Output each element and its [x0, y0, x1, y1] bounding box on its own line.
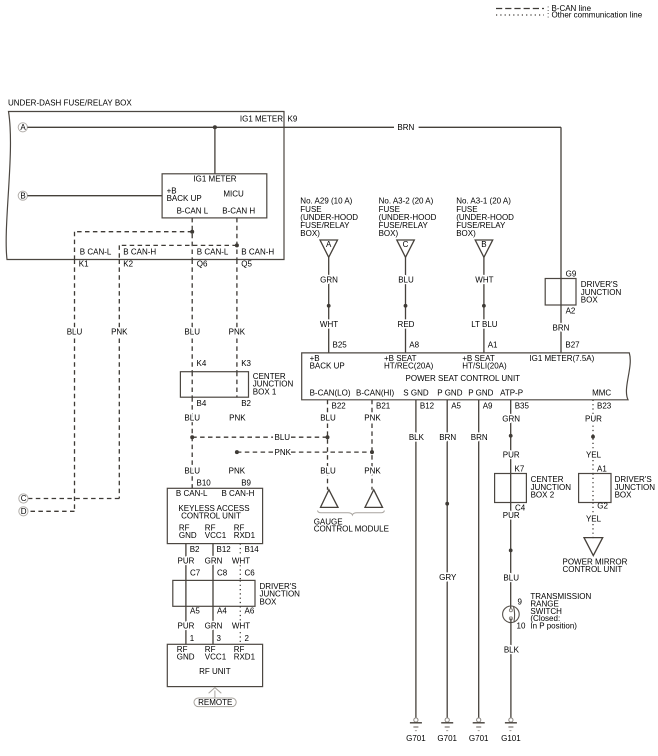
- transmission range switch label: [530, 592, 591, 631]
- svg-text:B CAN-L: B CAN-L: [176, 489, 208, 498]
- svg-text:PUR: PUR: [503, 511, 520, 520]
- svg-text:A8: A8: [409, 341, 419, 350]
- svg-text:B: B: [481, 240, 486, 249]
- wire through center junction box 1 (right): [236, 372, 238, 398]
- svg-text:GRN: GRN: [205, 557, 223, 566]
- wire fuse A to B25 (GRN/WHT): [328, 257, 330, 353]
- splice on B35 wire: [509, 434, 513, 438]
- REMOTE capsule: [194, 698, 236, 707]
- remote signal arrow: [209, 688, 222, 698]
- node B connector circle: [18, 191, 27, 200]
- svg-text:B21: B21: [376, 401, 391, 410]
- svg-text:B2: B2: [241, 399, 251, 408]
- node C connector circle: [19, 494, 28, 503]
- wire BRN vertical to driver's junction box G9: [560, 127, 562, 278]
- fuse A text No. A29 (10 A): [300, 197, 358, 238]
- svg-text:RF UNIT: RF UNIT: [199, 667, 231, 676]
- splice on fuse B wire: [482, 304, 486, 308]
- svg-text:PNK: PNK: [229, 327, 246, 336]
- svg-text:K3: K3: [241, 359, 251, 368]
- svg-text:POWER SEAT CONTROL UNIT: POWER SEAT CONTROL UNIT: [406, 374, 521, 383]
- svg-text:WHT: WHT: [320, 320, 338, 329]
- svg-text:B4: B4: [197, 399, 207, 408]
- power mirror control unit triangle: [584, 538, 603, 556]
- gauge control module label: [314, 517, 389, 533]
- svg-text:B: B: [20, 191, 25, 200]
- svg-text:BRN: BRN: [553, 324, 570, 333]
- svg-text:BRN: BRN: [397, 123, 414, 132]
- svg-text:MMC: MMC: [592, 389, 611, 398]
- svg-text:A1: A1: [597, 465, 607, 474]
- svg-text:P GND: P GND: [437, 389, 462, 398]
- ground G701 (B12): [406, 718, 426, 743]
- svg-text:B12: B12: [217, 545, 232, 554]
- svg-text:B CAN-H: B CAN-H: [241, 247, 274, 256]
- power seat control unit box: [302, 353, 631, 400]
- svg-text:D: D: [21, 507, 27, 516]
- svg-text:YEL: YEL: [586, 515, 602, 524]
- svg-text:GRN: GRN: [320, 275, 338, 284]
- svg-text:BLU: BLU: [67, 327, 83, 336]
- svg-text:G2: G2: [597, 501, 608, 510]
- splice on C4 wire: [509, 549, 513, 553]
- wire B-CAN H bus to K2: [119, 245, 237, 259]
- wire WHT keyless B14 to C6 (dotted): [239, 544, 241, 581]
- svg-text:PUR: PUR: [585, 415, 602, 424]
- driver's junction box (lower) outline: [579, 474, 611, 503]
- svg-text:IG1 METER: IG1 METER: [240, 115, 283, 124]
- svg-text:B-CAN(HI): B-CAN(HI): [356, 389, 395, 398]
- svg-text:C6: C6: [245, 569, 256, 578]
- wire B35 GRN to center junction box 2: [510, 400, 512, 474]
- svg-text:Q6: Q6: [197, 259, 208, 268]
- svg-text:BACK UP: BACK UP: [310, 361, 345, 370]
- svg-text:BOX 2: BOX 2: [531, 491, 555, 500]
- svg-text:B12: B12: [420, 401, 435, 410]
- center junction box 1 outline: [180, 372, 248, 398]
- svg-text:A: A: [326, 240, 332, 249]
- svg-text:RXD1: RXD1: [234, 531, 256, 540]
- wire B21 PNK dashed down to gauge control module: [371, 400, 373, 490]
- wire B-CAN L dashed down from IG1 METER: [191, 218, 193, 260]
- svg-text:BRN: BRN: [439, 433, 456, 442]
- wire K2 PNK dashed down to C: [28, 260, 119, 499]
- junction PNK bus at keyless wire: [235, 450, 239, 454]
- svg-text:B CAN-L: B CAN-L: [80, 247, 112, 256]
- wire B22 BLU dashed down to gauge control module: [327, 400, 329, 490]
- svg-text:PNK: PNK: [229, 413, 246, 422]
- svg-text:B9: B9: [241, 478, 251, 487]
- wire B4 BLU dashed down to keyless access control unit: [191, 397, 193, 488]
- wire through CJB2: [510, 474, 512, 503]
- svg-text:BOX 1: BOX 1: [253, 387, 277, 396]
- ground G701 (A5): [437, 718, 457, 743]
- svg-text:B-CAN(LO): B-CAN(LO): [310, 389, 351, 398]
- svg-text:G701: G701: [469, 734, 489, 743]
- svg-text:BOX: BOX: [581, 296, 599, 305]
- legend B-CAN line sample: [496, 4, 592, 13]
- driver's junction box (lower) label: [615, 475, 656, 499]
- driver's junction box (BRN) outline: [545, 279, 576, 306]
- wire PUR keyless B2 to driver's junction box C7: [185, 544, 187, 581]
- wire MMC PUR dotted to driver's junction box A1: [592, 400, 594, 474]
- svg-text:WHT: WHT: [232, 557, 250, 566]
- wire GRN keyless B12 to C8: [212, 544, 214, 581]
- svg-text:IG1 METER(7.5A): IG1 METER(7.5A): [529, 354, 594, 363]
- svg-text:9: 9: [518, 598, 523, 607]
- svg-text:WHT: WHT: [232, 622, 250, 631]
- svg-text:C: C: [21, 494, 27, 503]
- wire A to IG1 METER K9 (BRN): [27, 126, 561, 128]
- wire through center junction box 1 (left): [191, 372, 193, 398]
- BLU bus dashed to gauge control module wire: [192, 436, 327, 438]
- wire PUR DJB A5 to RF unit 1: [185, 606, 187, 644]
- svg-text:BOX): BOX): [456, 229, 476, 238]
- svg-text:C7: C7: [190, 569, 201, 578]
- power mirror control unit label: [563, 558, 628, 574]
- svg-text:BLU: BLU: [503, 574, 519, 583]
- splice on MMC wire: [591, 435, 595, 439]
- wire C4 PUR/BLU to transmission range switch: [510, 503, 512, 611]
- legend Other communication line sample: [496, 11, 643, 20]
- svg-text:P GND: P GND: [468, 389, 493, 398]
- wire Q5 PNK dashed down to center junction box 1: [236, 260, 238, 372]
- wire B-CAN L bus to K1: [75, 232, 193, 260]
- svg-text:S GND: S GND: [403, 389, 429, 398]
- svg-text:: Other communication line: : Other communication line: [547, 11, 643, 20]
- svg-text:BACK UP: BACK UP: [167, 194, 202, 203]
- svg-text:IG1 METER: IG1 METER: [193, 174, 236, 183]
- wire B-CAN H dashed down from IG1 METER: [236, 218, 238, 260]
- junction B-CAN L bus: [190, 230, 194, 234]
- svg-text:A5: A5: [190, 607, 200, 616]
- junction BLU bus end: [326, 435, 330, 439]
- wire 10 BLK to ground G101: [510, 618, 512, 717]
- svg-text:B22: B22: [332, 401, 347, 410]
- wire through DJB GRN: [212, 580, 214, 606]
- svg-text:ATP-P: ATP-P: [500, 389, 523, 398]
- wire through DJB WHT dotted: [239, 580, 241, 606]
- svg-text:3: 3: [217, 634, 222, 643]
- driver's junction box (RF) outline: [173, 580, 255, 606]
- svg-text:In P position): In P position): [530, 622, 577, 631]
- svg-text:B23: B23: [597, 401, 612, 410]
- svg-text:PUR: PUR: [178, 622, 195, 631]
- junction B-CAN H bus: [235, 243, 239, 247]
- svg-text:BLU: BLU: [320, 413, 336, 422]
- PNK bus dashed to gauge control module wire: [237, 451, 372, 453]
- svg-text:CONTROL UNIT: CONTROL UNIT: [181, 512, 241, 521]
- pin +B BACK UP: [167, 187, 202, 203]
- svg-text:B35: B35: [515, 401, 530, 410]
- svg-text:2: 2: [245, 634, 250, 643]
- driver's junction box (BRN) label: [581, 280, 622, 304]
- svg-text:RXD1: RXD1: [234, 653, 256, 662]
- svg-text:BLU: BLU: [320, 467, 336, 476]
- wire from A line down to IG1 METER unit: [214, 127, 216, 174]
- ground G701 (A9): [469, 718, 489, 743]
- svg-text:PNK: PNK: [229, 467, 246, 476]
- svg-text:GRN: GRN: [205, 622, 223, 631]
- wire A5 BRN/GRY to ground G701: [446, 400, 448, 718]
- wire fuse C to A8 (BLU/RED): [405, 257, 407, 353]
- svg-text:VCC1: VCC1: [205, 531, 227, 540]
- fuse A symbol: [320, 240, 338, 257]
- pin RF VCC1 (RF unit): [205, 645, 227, 662]
- svg-text:BOX): BOX): [300, 229, 320, 238]
- svg-text:A6: A6: [245, 607, 255, 616]
- transmission range switch symbol: [503, 606, 520, 623]
- wire Q6 BLU dashed down to center junction box 1: [191, 260, 193, 372]
- gauge control module triangle 2: [365, 490, 383, 508]
- svg-text:VCC1: VCC1: [205, 653, 227, 662]
- pin RF RXD1 (keyless): [234, 524, 256, 541]
- svg-text:B-CAN L: B-CAN L: [177, 207, 209, 216]
- svg-text:GRY: GRY: [439, 573, 457, 582]
- svg-text:K7: K7: [515, 465, 525, 474]
- svg-text:K4: K4: [197, 359, 207, 368]
- junction BLU bus at keyless wire: [190, 435, 194, 439]
- junction on wire A: [213, 125, 217, 129]
- gauge control module triangle 1: [321, 490, 339, 508]
- svg-text:PNK: PNK: [364, 467, 381, 476]
- wire A2 BRN to B27: [560, 305, 562, 353]
- under-dash fuse/relay box outline: [6, 112, 284, 260]
- node A connector circle: [18, 123, 27, 132]
- svg-text:GRN: GRN: [502, 415, 520, 424]
- wire through DJB PUR: [185, 580, 187, 606]
- pin +B BACK UP: [310, 354, 345, 371]
- svg-text:B10: B10: [197, 478, 212, 487]
- svg-text:PUR: PUR: [503, 450, 520, 459]
- svg-text:K2: K2: [123, 259, 133, 268]
- svg-text:BRN: BRN: [471, 433, 488, 442]
- svg-text:GND: GND: [179, 531, 197, 540]
- svg-text:HT/REC(20A): HT/REC(20A): [384, 361, 434, 370]
- junction PNK bus end: [370, 450, 374, 454]
- fuse C text No. A3-2 (20 A): [379, 197, 437, 238]
- svg-text:B27: B27: [565, 341, 580, 350]
- wire through DJB lower dotted: [592, 474, 594, 503]
- pin RF GND (RF unit): [177, 645, 195, 662]
- svg-text:1: 1: [190, 634, 195, 643]
- node D connector circle: [19, 507, 28, 516]
- svg-text:BOX: BOX: [615, 491, 633, 500]
- svg-text:K9: K9: [288, 115, 298, 124]
- IG1 METER unit box: [162, 174, 267, 218]
- fuse B symbol: [475, 240, 493, 257]
- svg-text:C8: C8: [217, 569, 228, 578]
- svg-text:K1: K1: [79, 259, 89, 268]
- wire GRN DJB A4 to RF unit 3: [212, 606, 214, 644]
- wire K1 BLU dashed down to D: [28, 260, 75, 512]
- svg-text:A1: A1: [488, 341, 498, 350]
- label KEYLESS ACCESS CONTROL UNIT: [178, 504, 249, 521]
- driver's junction box (RF) label: [260, 582, 301, 606]
- wire B12 BLK to ground G701: [415, 400, 417, 718]
- svg-text:UNDER-DASH FUSE/RELAY BOX: UNDER-DASH FUSE/RELAY BOX: [8, 99, 132, 108]
- wire fuse B to A1 (WHT/LT BLU): [483, 257, 485, 353]
- svg-text:GND: GND: [177, 653, 195, 662]
- svg-text:BLK: BLK: [504, 645, 520, 654]
- svg-text:REMOTE: REMOTE: [198, 698, 232, 707]
- svg-text:WHT: WHT: [475, 275, 493, 284]
- svg-text:CONTROL MODULE: CONTROL MODULE: [314, 524, 389, 533]
- svg-text:RED: RED: [398, 320, 415, 329]
- svg-text:B2: B2: [190, 545, 200, 554]
- svg-text:LT BLU: LT BLU: [471, 320, 498, 329]
- svg-text:G701: G701: [437, 734, 457, 743]
- svg-text:BOX: BOX: [260, 597, 278, 606]
- pin +B SEAT HT/REC(20A): [384, 354, 434, 371]
- svg-text:C: C: [403, 240, 409, 249]
- svg-text:A2: A2: [566, 306, 576, 315]
- svg-text:A4: A4: [217, 607, 227, 616]
- svg-text:PUR: PUR: [178, 557, 195, 566]
- RF unit box: [167, 644, 262, 686]
- svg-text:B CAN-H: B CAN-H: [222, 489, 255, 498]
- svg-text:B CAN-H: B CAN-H: [123, 247, 156, 256]
- svg-text:B25: B25: [333, 341, 348, 350]
- svg-text:HT/SLI(20A): HT/SLI(20A): [462, 361, 507, 370]
- wire through DJB BRN: [560, 279, 562, 306]
- center junction box 2 outline: [495, 474, 527, 503]
- center junction box 1 label: [253, 372, 294, 396]
- wire B to IG1 METER +B BACK UP: [27, 195, 162, 197]
- svg-text:BOX): BOX): [379, 229, 399, 238]
- svg-text:PNK: PNK: [275, 448, 292, 457]
- svg-text:BLU: BLU: [184, 413, 200, 422]
- pin label IG1 METER / K9: [240, 115, 298, 124]
- pin RF GND (keyless): [179, 524, 197, 541]
- center junction box 2 label: [531, 475, 572, 499]
- svg-text:B14: B14: [245, 545, 260, 554]
- wire A9 BRN to ground G701: [478, 400, 480, 718]
- svg-text:A9: A9: [483, 401, 493, 410]
- splice on fuse A wire: [327, 304, 331, 308]
- svg-text:CONTROL UNIT: CONTROL UNIT: [563, 565, 623, 574]
- svg-text:A5: A5: [451, 401, 461, 410]
- pin +B SEAT HT/SLI(20A): [462, 354, 507, 371]
- svg-text:G701: G701: [406, 734, 426, 743]
- svg-text:MICU: MICU: [223, 190, 244, 199]
- svg-text:YEL: YEL: [586, 450, 602, 459]
- svg-text:BLU: BLU: [184, 467, 200, 476]
- svg-text:10: 10: [517, 621, 526, 630]
- svg-text:BLU: BLU: [398, 275, 414, 284]
- gauge control module brace: [318, 511, 385, 516]
- svg-text:BLU: BLU: [275, 433, 291, 442]
- fuse C symbol: [397, 240, 415, 257]
- ground G101: [501, 718, 521, 743]
- keyless access control unit box: [167, 488, 262, 543]
- svg-text:B CAN-L: B CAN-L: [197, 247, 229, 256]
- svg-text:BLK: BLK: [409, 433, 425, 442]
- svg-text:PNK: PNK: [364, 413, 381, 422]
- splice on fuse C wire: [404, 304, 408, 308]
- svg-text:PNK: PNK: [111, 327, 128, 336]
- svg-text:A: A: [20, 123, 26, 132]
- svg-text:G9: G9: [566, 269, 577, 278]
- pin RF RXD1 (RF unit): [234, 645, 256, 662]
- svg-text:BLU: BLU: [184, 327, 200, 336]
- svg-text:G101: G101: [501, 734, 521, 743]
- pin RF VCC1 (keyless): [205, 524, 227, 541]
- svg-text:B-CAN H: B-CAN H: [222, 207, 255, 216]
- wire WHT DJB A6 to RF unit 2 (dotted): [239, 606, 241, 644]
- wire G2 YEL dotted to power mirror control unit: [592, 503, 594, 540]
- fuse B text No. A3-1 (20 A): [456, 197, 514, 238]
- svg-text:Q5: Q5: [241, 259, 252, 268]
- splice on A5 wire: [445, 502, 449, 506]
